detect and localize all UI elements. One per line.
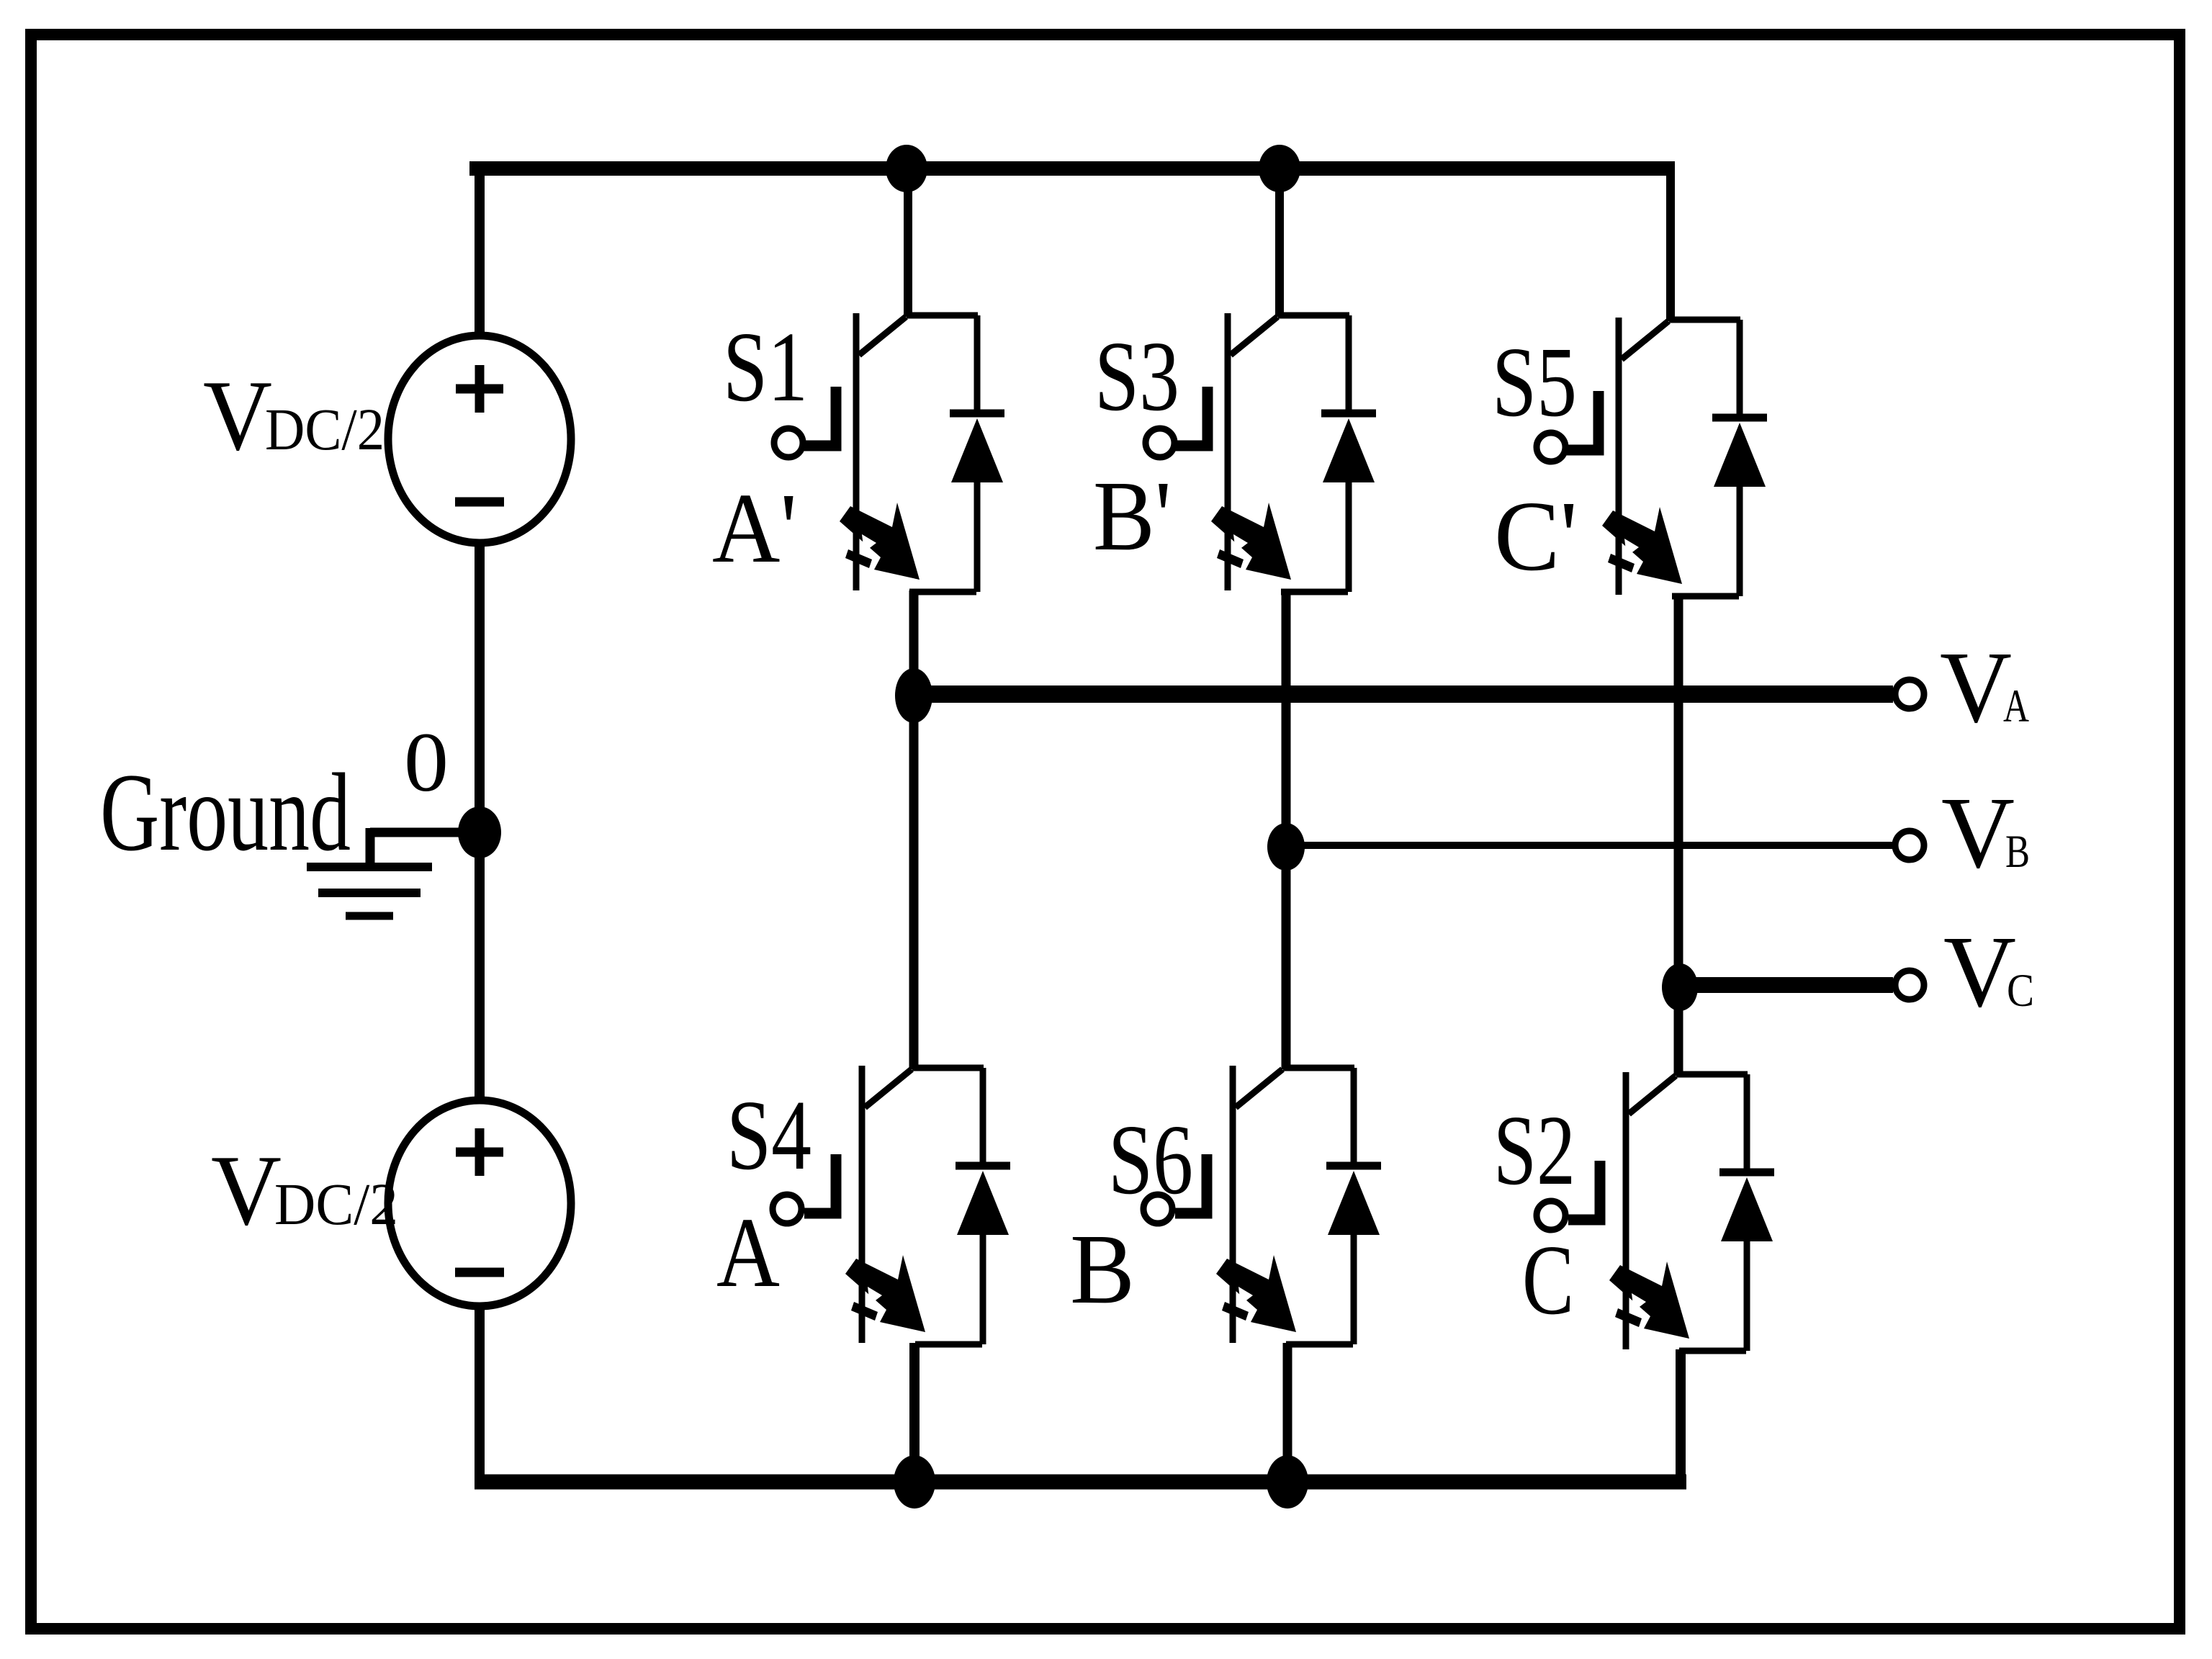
label VC [1943,914,2034,1028]
transistor S4 (IGBT) [773,1066,984,1344]
voltage source V1 (VDC/2 upper) [388,336,571,543]
svg-text:C: C [1522,1225,1574,1336]
transistor S2 (IGBT) [1537,1072,1748,1351]
transistor S5 (IGBT) [1537,318,1740,596]
wire: leg B bottom (S6 emitter to bottom bus) [1283,1343,1292,1482]
diode D6 [1326,1068,1381,1344]
wire: leg A mid (S1 emitter to S4 collector) [909,590,919,1069]
svg-text:S4: S4 [727,1080,811,1191]
svg-text:C: C [2007,965,2034,1017]
svg-text:S3: S3 [1094,321,1179,432]
junction dot: top bus / leg A [886,145,927,192]
wire: leg C top (bus corner to S5) [1666,168,1675,321]
wire: output VB [1286,842,1893,849]
svg-text:A: A [716,1197,780,1308]
svg-text:0: 0 [404,715,449,809]
label VA [1940,630,2029,744]
svg-text:S5: S5 [1492,327,1577,438]
svg-text:V: V [203,360,272,472]
terminal VB [1895,831,1924,860]
wire: leg C bottom (S2 emitter to bottom bus corner) [1676,1349,1686,1482]
svg-text:B: B [1070,1214,1135,1325]
svg-text:S6: S6 [1108,1105,1193,1215]
svg-text:DC/2: DC/2 [274,1171,398,1237]
diode D3 [1321,315,1376,592]
transistor S3 (IGBT) [1146,313,1349,592]
diode D2 [1719,1074,1774,1351]
label VDC/2 (upper) [203,360,385,472]
diode D4 [956,1068,1010,1344]
wire: leg A top (bus to S1) [904,168,912,317]
svg-text:V: V [1941,775,2015,889]
svg-text:A': A' [712,473,797,584]
svg-text:B: B [2005,826,2030,878]
svg-text:S1: S1 [723,312,808,423]
wire: leg C mid (S5 emitter to S2 collector) [1674,595,1683,1076]
wire: output VA [914,685,1893,703]
svg-text:V: V [1940,630,2012,744]
voltage source V2 (VDC/2 lower) [388,1100,571,1306]
transistor S6 (IGBT) [1143,1066,1354,1344]
label VDC/2 (lower) [211,1135,398,1246]
svg-text:A: A [2003,680,2029,732]
ground [307,828,480,916]
diode D5 [1712,320,1767,596]
terminal VA [1895,680,1924,709]
junction dot: bottom bus / leg A [894,1455,935,1509]
terminal VC [1895,971,1924,999]
top DC bus (positive rail) [469,161,1675,176]
node VA junction dot [895,668,932,723]
svg-text:Ground: Ground [100,750,351,874]
svg-text:C': C' [1494,481,1578,592]
node VB junction dot [1267,823,1305,871]
bottom DC bus (negative rail) [475,1475,1686,1490]
svg-text:B': B' [1093,461,1172,572]
svg-text:V: V [211,1135,282,1246]
wire: output VC [1680,977,1893,993]
junction dot: top bus / leg B [1259,145,1300,192]
wire: left rail V1 to V2 through node 0 [475,541,485,1102]
wire: left rail V2 to bottom bus [475,1305,485,1477]
node 0 junction dot [458,806,501,858]
svg-text:S2: S2 [1493,1095,1575,1206]
node VC junction dot [1662,963,1698,1011]
wire: left rail from top bus to V1 [475,168,485,338]
junction dot: bottom bus / leg B [1267,1455,1308,1509]
wire: leg B mid (S3 emitter to S6 collector) [1282,590,1291,1069]
label VB [1941,775,2030,889]
svg-text:DC/2: DC/2 [265,396,385,462]
diode D1 [950,315,1004,592]
svg-text:V: V [1943,914,2016,1028]
transistor S1 (IGBT) [774,313,978,592]
wire: leg A bottom (S4 emitter to bottom bus) [909,1343,920,1482]
wire: leg B top (bus to S3) [1275,168,1284,317]
